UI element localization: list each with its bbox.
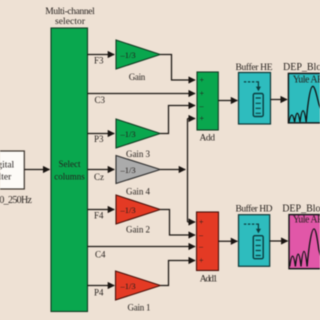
wire branch vertical Cz net: [187, 119, 189, 223]
adder Add1: [197, 212, 219, 271]
wire F3: [88, 54, 115, 56]
svg-text:C4: C4: [95, 250, 106, 260]
svg-text:Multi-channel: Multi-channel: [45, 7, 95, 17]
svg-text:Buffer HD: Buffer HD: [236, 203, 273, 214]
svg-text:Cz: Cz: [94, 172, 104, 182]
svg-text:selector: selector: [55, 17, 86, 27]
svg-text:P4: P4: [94, 288, 104, 298]
svg-text:+: +: [200, 89, 205, 98]
wire Gain1 to Add1 in4: [161, 261, 196, 286]
svg-text:40_250Hz: 40_250Hz: [0, 195, 33, 206]
svg-text:Gain 1: Gain 1: [128, 302, 151, 312]
svg-text:Add1: Add1: [200, 275, 218, 285]
wire branch to Add in4: [188, 118, 196, 120]
svg-text:F4: F4: [94, 211, 104, 221]
wire Gain2 to Add1 in2: [160, 210, 195, 236]
gain G_F4 (Gain 2): [116, 195, 160, 224]
svg-text:Filter: Filter: [0, 173, 12, 183]
svg-text:–1/3: –1/3: [120, 50, 136, 60]
svg-text:–1/3: –1/3: [120, 281, 136, 291]
wire Buffer HD to Yule AR1: [270, 240, 288, 242]
svg-text:Digital: Digital: [0, 161, 15, 171]
wire C3: [88, 93, 196, 95]
wire Add to Buffer HE: [218, 100, 237, 102]
wire F4: [88, 209, 115, 211]
svg-text:Gain 3: Gain 3: [126, 149, 151, 159]
multi-channel selector U1: [51, 28, 88, 312]
svg-text:Yule AR: Yule AR: [293, 75, 320, 86]
wire P4: [88, 285, 115, 287]
digital filter block U0: [0, 151, 24, 189]
svg-text:DEP_Block: DEP_Block: [283, 62, 320, 73]
buffer Buffer_HE: [239, 73, 271, 125]
svg-text:+: +: [200, 114, 205, 123]
spectrum block Yule AR (HD): [289, 215, 320, 269]
svg-text:–1/3: –1/3: [120, 129, 136, 139]
svg-text:Yule AR: Yule AR: [293, 215, 320, 226]
wire branch to Add1 in1: [188, 221, 196, 223]
wire C4: [88, 246, 196, 248]
svg-text:DEP_Block: DEP_Block: [282, 203, 320, 214]
gain G_F3 (Gain): [116, 40, 160, 69]
svg-text:P3: P3: [94, 134, 104, 144]
svg-text:+: +: [199, 218, 204, 227]
wire Gain3 to Add in3: [160, 106, 195, 134]
svg-text:C3: C3: [95, 95, 106, 105]
svg-text:+: +: [199, 256, 204, 265]
wire Cz: [88, 169, 115, 171]
wire Gain to Add in1: [160, 55, 195, 81]
wire Gain4 to branch junction: [160, 169, 185, 171]
gain G_P4 (Gain 1): [116, 271, 161, 300]
wire Buffer HE to Yule AR: [271, 99, 288, 101]
svg-text:F3: F3: [94, 56, 104, 66]
wire Add1 to Buffer HD: [219, 240, 238, 242]
gain G_Cz (Gain 4): [116, 156, 160, 184]
adder Add: [197, 72, 218, 130]
svg-text:Add: Add: [199, 134, 215, 144]
buffer Buffer_HD: [239, 215, 270, 267]
svg-text:–1/3: –1/3: [120, 205, 136, 215]
svg-text:Gain 4: Gain 4: [126, 187, 151, 197]
svg-text:columns: columns: [54, 172, 85, 182]
spectrum block Yule AR (HE): [288, 73, 320, 123]
gain G_P3 (Gain 3): [116, 119, 160, 148]
svg-text:–1/3: –1/3: [120, 165, 136, 175]
svg-text:Buffer HE: Buffer HE: [236, 62, 273, 73]
svg-text:Select: Select: [59, 159, 81, 169]
svg-text:Gain: Gain: [129, 72, 146, 82]
wire P3: [88, 133, 115, 135]
svg-text:+: +: [200, 76, 205, 85]
wire filter to selector: [24, 169, 49, 171]
svg-text:Gain 2: Gain 2: [126, 224, 150, 234]
